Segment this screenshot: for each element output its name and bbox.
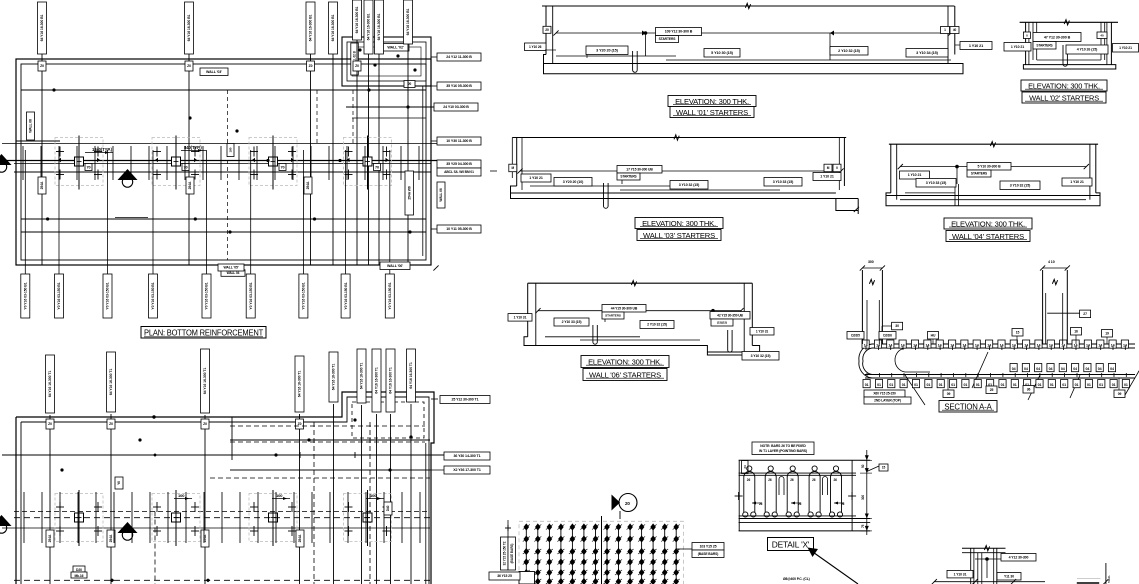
detailX left edge: [738, 460, 740, 531]
svg-text:01: 01: [1038, 383, 1042, 387]
svg-text:01: 01: [865, 383, 869, 387]
wall 02 sub-area rectangle top-right of plan: [342, 37, 431, 86]
svg-text:15: 15: [1016, 330, 1020, 334]
right label 2line a: [437, 160, 481, 168]
sub-rect inner rotated label: [351, 43, 359, 75]
svg-text:STARTERS: STARTERS: [1036, 43, 1052, 47]
wall02 bar left a: [1032, 22, 1034, 60]
wall04 label 2: [916, 179, 956, 188]
bottom plan lower line: [2, 527, 430, 529]
arrow to detail X: [808, 548, 859, 584]
svg-text:04: 04: [1110, 367, 1114, 371]
bottom plan main line: [2, 454, 444, 456]
svg-text:1 Y10 21: 1 Y10 21: [820, 175, 834, 179]
wall01 base outline: [544, 55, 964, 74]
wall01 label 109 Y12: [656, 28, 702, 36]
svg-text:Y0 Y16 03-150 B1: Y0 Y16 03-150 B1: [151, 282, 155, 309]
bottom band label 50: [46, 530, 54, 547]
bottom plan dashed line: [14, 511, 430, 513]
svg-text:04: 04: [1024, 367, 1028, 371]
column marker (bottom plan): [249, 490, 297, 546]
tick marks along band: [866, 346, 1126, 377]
rebar label below plan x=107.5: [103, 274, 112, 318]
vertical dashed line 2: [352, 90, 354, 143]
svg-text:25 Y12 30-300 T1: 25 Y12 30-300 T1: [451, 398, 478, 402]
wall01 right outer: [954, 6, 956, 55]
svg-text:Z0: Z0: [187, 64, 191, 68]
svg-text:14: 14: [1098, 343, 1102, 347]
svg-text:01: 01: [1075, 383, 1079, 387]
svg-text:STARTERS: STARTERS: [659, 37, 677, 41]
wall03 label 7: [813, 173, 841, 181]
svg-text:30: 30: [895, 324, 899, 328]
detail X dimension line: [866, 450, 868, 535]
rebar label above bottom plan x=50: [46, 355, 55, 413]
wall06 label 1: [508, 314, 532, 322]
svg-text:42 Y15 30-350 UB: 42 Y15 30-350 UB: [717, 313, 743, 317]
dim label 1340(TYP.) col1: [85, 147, 113, 154]
wall01 label starters: [656, 36, 679, 43]
plan line to label 03: [346, 106, 478, 108]
svg-text:Mk.16: Mk.16: [75, 574, 84, 578]
svg-text:3 Y10 32 (15): 3 Y10 32 (15): [679, 183, 700, 187]
wall02 title: [1021, 80, 1107, 103]
bottom plan right label 2: [444, 452, 490, 460]
bottom plan dashed through columns: [14, 517, 430, 519]
wall06 label 9: [742, 352, 779, 361]
svg-text:01: 01: [1001, 383, 1005, 387]
svg-text:26: 26: [798, 502, 802, 506]
svg-text:04: 04: [1036, 367, 1040, 371]
svg-text:Z0: Z0: [48, 422, 52, 426]
wall02 label left: [1004, 43, 1031, 52]
svg-text:Z0: Z0: [355, 64, 359, 68]
svg-text:2 Y10 32 (15): 2 Y10 32 (15): [647, 323, 667, 327]
svg-text:5 Y10 30-300 B: 5 Y10 30-300 B: [977, 164, 1001, 168]
svg-text:103 Y15 25: 103 Y15 25: [700, 544, 717, 548]
svg-text:20: 20: [545, 28, 549, 32]
bottom plan grid x=361.5: [361, 405, 363, 584]
wall01 small box right a: [941, 27, 950, 34]
bottom plan grid x=376.5: [376, 414, 378, 584]
grid box on top border: [38, 61, 46, 71]
svg-text:WALL '03': WALL '03': [206, 70, 222, 74]
bottom subrect dashed 2: [230, 441, 425, 443]
detail X slab lines: [739, 459, 871, 461]
svg-text:X2 Y36 17-300 T1: X2 Y36 17-300 T1: [453, 468, 481, 472]
wall06 label 6: [710, 312, 750, 320]
svg-text:35 Y25 04-300 B: 35 Y25 04-300 B: [446, 162, 472, 166]
svg-text:HU: HU: [931, 333, 936, 337]
column marker (bottom plan): [344, 490, 392, 546]
svg-text:1 Y10 31: 1 Y10 31: [514, 316, 527, 320]
svg-text:1 Y10 31: 1 Y10 31: [954, 572, 967, 576]
bottom right mini elevation: [962, 547, 1006, 549]
plan second centre line: [14, 163, 431, 165]
grid line x=408: [407, 44, 409, 265]
grid box on top border: [353, 61, 361, 71]
wall04 right inner: [1089, 144, 1091, 200]
grid box on top border: [185, 61, 193, 71]
plan dim line upper: [2, 143, 478, 145]
wall02 right outer: [1110, 22, 1112, 64]
secAA label 09b: [1114, 390, 1125, 398]
secAA label D2/D6: [879, 332, 896, 340]
svg-text:D2/D6: D2/D6: [883, 333, 892, 337]
bottom band label 300: [296, 530, 304, 547]
svg-text:27: 27: [1083, 312, 1087, 316]
svg-text:01: 01: [1062, 383, 1066, 387]
column at x=367.5 top plan: [344, 136, 392, 190]
wall04 title: [944, 218, 1032, 242]
section A-A inner bend: [895, 348, 930, 372]
band label 308: [304, 177, 312, 194]
dim label 100: [174, 493, 192, 500]
svg-text:Ø8@400 P.C. (CL): Ø8@400 P.C. (CL): [783, 577, 810, 581]
svg-text:Y0 Y16 03-150 B1: Y0 Y16 03-150 B1: [24, 282, 28, 309]
svg-text:64 Y16 16-300 T1: 64 Y16 16-300 T1: [389, 367, 393, 394]
wall03 title: [635, 218, 723, 241]
svg-text:36: 36: [1027, 387, 1031, 391]
svg-text:2 Y10 32 (15): 2 Y10 32 (15): [838, 49, 860, 53]
svg-text:D20: D20: [76, 568, 82, 572]
bottom plan vertical dashed 2: [369, 422, 371, 584]
svg-text:(15)(15): (15)(15): [717, 321, 727, 325]
svg-text:10 Y11 05-300 B: 10 Y11 05-300 B: [446, 227, 472, 231]
base bars grid columns: [523, 523, 680, 584]
svg-text:254A: 254A: [109, 534, 113, 542]
section A-A top label squares: [862, 340, 1129, 348]
wall06 left inner: [535, 283, 537, 345]
svg-text:WALL 08: WALL 08: [29, 119, 33, 133]
secAA label 09a: [943, 390, 954, 398]
dim label 100: [272, 493, 290, 500]
svg-text:64 Y16 16-300 B1: 64 Y16 16-300 B1: [309, 14, 313, 41]
wall03 label 4: [617, 173, 640, 180]
bottom plan grid x=390.5: [390, 414, 392, 584]
grid detail marker D: [612, 494, 638, 520]
wall03 small box left: [509, 164, 517, 172]
plan main centre line: [2, 160, 478, 162]
wall03 top line: [512, 137, 846, 139]
left wall label: [27, 112, 35, 140]
bottom plan right label 1: [440, 396, 490, 404]
wall04 hook b: [958, 184, 960, 206]
right label 24 Y10 03-300 B: [434, 103, 478, 111]
wall04 dim line: [900, 166, 1086, 168]
svg-text:64 Y16 16-300 B1: 64 Y16 16-300 B1: [377, 13, 381, 40]
svg-text:A: A: [0, 520, 3, 525]
svg-text:M: M: [512, 166, 515, 170]
svg-text:WALL '06': WALL '06': [387, 264, 403, 268]
wall01 label 5 Y10 30: [704, 49, 740, 58]
svg-text:70: 70: [183, 166, 187, 170]
svg-text:01: 01: [1087, 383, 1091, 387]
svg-text:01: 01: [951, 383, 955, 387]
wall03 label 6: [764, 178, 802, 187]
wall04 bar line: [900, 199, 1086, 201]
detail X title: [768, 538, 814, 551]
wall03 dim line: [520, 170, 841, 172]
wall01 dim line: [556, 32, 951, 34]
dim label on dashed line: [227, 144, 234, 157]
wall02 label main: [1033, 33, 1081, 42]
svg-text:3 Y10 32 (15): 3 Y10 32 (15): [751, 354, 771, 358]
svg-text:64 Y16 16-300 T1: 64 Y16 16-300 T1: [409, 362, 413, 389]
wall02 label starters: [1033, 42, 1056, 50]
rebar line x=153: [152, 150, 154, 274]
secAA label HU: [928, 332, 939, 340]
wall02 base: [1023, 65, 1115, 69]
wall06 top line: [528, 282, 753, 284]
svg-text:Z0: Z0: [109, 422, 113, 426]
grid line x=189: [188, 54, 190, 265]
wall03 right inner: [838, 138, 840, 191]
svg-text:STARTERS: STARTERS: [971, 172, 987, 176]
svg-text:254A: 254A: [48, 534, 52, 542]
section marker A left edge bottom plan: [0, 515, 12, 533]
svg-text:WALL 06: WALL 06: [439, 188, 443, 201]
svg-text:Y0 Y16 03-150 B1: Y0 Y16 03-150 B1: [302, 282, 306, 309]
detailX left inner label: [742, 461, 749, 474]
mini elev mid line: [975, 558, 1002, 560]
svg-text:64 Y16 16-300 B1: 64 Y16 16-300 B1: [355, 6, 359, 33]
svg-text:3 Y10 34 (15): 3 Y10 34 (15): [916, 51, 938, 55]
svg-text:Z0: Z0: [40, 64, 44, 68]
bottom plan vertical dashed 3: [313, 422, 315, 584]
svg-text:254A: 254A: [298, 534, 302, 542]
wall03 left outer: [516, 138, 518, 187]
section A-A bottom label squares: [863, 380, 1130, 388]
svg-text:01: 01: [1013, 383, 1017, 387]
secAA label 30: [892, 322, 903, 330]
svg-text:Y0 Y16 03-150 B1: Y0 Y16 03-150 B1: [344, 282, 348, 309]
svg-text:01: 01: [939, 383, 943, 387]
wall03 small box right b: [833, 164, 841, 172]
detailX right edge: [851, 460, 853, 531]
secAA label 36: [1023, 386, 1034, 394]
far right bottom bits: [1077, 582, 1099, 584]
right label 24 Y12 11-300 B: [437, 53, 481, 61]
svg-text:01: 01: [926, 383, 930, 387]
wall01 right inner: [947, 6, 949, 64]
small label TY0: [115, 477, 123, 489]
column at x=176 top plan: [152, 136, 200, 190]
rebar label above plan x=408: [404, 0, 413, 44]
plan lower band line: [14, 171, 431, 173]
wall02 base top bar: [1037, 59, 1101, 61]
bottom plan grid x=205: [204, 415, 206, 584]
sub-rect small box: [404, 81, 415, 88]
grid centre line: [601, 516, 603, 584]
svg-text:3 Y10 32 (15): 3 Y10 32 (15): [1010, 184, 1031, 188]
svg-text:100: 100: [178, 493, 185, 498]
svg-text:Y0 Y16 03-150 B1: Y0 Y16 03-150 B1: [388, 282, 392, 309]
rebar label above plan x=42: [38, 2, 47, 54]
wall03 label 3: [617, 166, 662, 174]
svg-text:IN T1 LAYER (POINTING BARS): IN T1 LAYER (POINTING BARS): [759, 449, 807, 453]
svg-text:04: 04: [1085, 367, 1089, 371]
svg-text:D2/D5: D2/D5: [851, 333, 860, 337]
wall02 area rebar (bottom plan): [210, 477, 430, 479]
svg-text:64 Y16 16-300 B1: 64 Y16 16-300 B1: [40, 14, 44, 41]
svg-text:Y0 Y16 03-150 B1: Y0 Y16 03-150 B1: [106, 282, 110, 309]
mini elev hook: [986, 559, 988, 578]
section marker A left edge top plan: [0, 154, 12, 172]
svg-text:2 Y10 33 (15): 2 Y10 33 (15): [562, 320, 582, 324]
wall03 base: [511, 186, 859, 214]
grid left label b: [508, 537, 516, 570]
wall03 small box right a: [824, 164, 832, 172]
wall04 label 1: [900, 171, 930, 179]
svg-text:ABCL S/L W/I BM 01: ABCL S/L W/I BM 01: [444, 170, 474, 174]
svg-text:01: 01: [1050, 383, 1054, 387]
svg-text:300: 300: [868, 260, 874, 264]
svg-text:Y0 Y16 03-150 B1: Y0 Y16 03-150 B1: [57, 282, 61, 309]
rebar line x=389.8: [389, 150, 391, 274]
svg-text:1 Y10 21: 1 Y10 21: [1011, 45, 1024, 49]
section A-A wall 2: [1042, 270, 1044, 344]
wall03 step line: [530, 185, 680, 187]
svg-text:10 Y30 11-300 B: 10 Y30 11-300 B: [446, 139, 472, 143]
svg-text:3 Y10 33 (15): 3 Y10 33 (15): [773, 180, 794, 184]
wall04 hook a: [954, 184, 956, 206]
right label 35 Y16 05-300 B: [437, 82, 481, 90]
wall01 label 3 Y10 34: [906, 49, 948, 58]
section A-A wall 1: [861, 270, 863, 344]
svg-text:40: 40: [1100, 33, 1104, 37]
svg-text:01: 01: [889, 383, 893, 387]
bottom left small label: [489, 572, 520, 580]
small label pair bottom plan col1: [71, 566, 87, 578]
secAA label 25: [986, 386, 997, 394]
rebar line x=250.7: [250, 150, 252, 274]
svg-text:STARTERS: STARTERS: [620, 175, 636, 179]
rebar label below plan x=153: [149, 274, 158, 318]
svg-text:15: 15: [882, 466, 886, 470]
section A-A leader diagonals: [905, 375, 925, 405]
svg-text:16: 16: [1074, 329, 1078, 333]
svg-text:01: 01: [976, 383, 980, 387]
detail X splice bars: [779, 477, 784, 496]
bottom plan line dup: [230, 469, 430, 471]
rebar label above bottom plan x=376.5: [372, 349, 381, 412]
svg-text:109 Y12 30-300 B: 109 Y12 30-300 B: [665, 30, 693, 34]
vertical dashed line 1: [227, 90, 229, 260]
svg-text:4 10: 4 10: [1048, 260, 1055, 264]
svg-text:Y11 30: Y11 30: [1004, 574, 1014, 578]
grid box on bottom plan top border: [296, 419, 304, 429]
wall06 title: [581, 356, 669, 381]
wall06 U-bars: [593, 325, 597, 344]
wall02 small box l: [1023, 32, 1030, 39]
wall06 right inner: [743, 283, 745, 352]
wall02 sub-rect dashed inner (bottom plan): [352, 402, 424, 438]
wall01 label 3 Y20 20: [586, 46, 628, 55]
secAA bottom label a: [864, 390, 905, 397]
rebar line x=25.3: [24, 150, 26, 274]
plan: top reinforcement (cut off at bottom) outer border: [16, 392, 434, 584]
wall01 title: [668, 96, 756, 118]
svg-text:WALL '02': WALL '02': [387, 46, 404, 50]
bottom plan dashed line 2: [14, 579, 430, 581]
rebar label above plan x=333: [329, 2, 338, 54]
svg-text:09: 09: [1118, 392, 1122, 396]
wall04 leader: [956, 167, 958, 184]
grid box on bottom plan top border: [201, 419, 209, 429]
wall04 label 5: [1000, 181, 1040, 190]
rebar line x=206.5: [206, 150, 208, 274]
rebar label below plan x=250.7: [246, 274, 255, 318]
grid line x=42: [41, 54, 43, 265]
wall02 bar right b: [1104, 22, 1106, 60]
svg-text:254A: 254A: [306, 181, 310, 189]
grid line x=357: [356, 40, 358, 265]
svg-text:840(TYP.): 840(TYP.): [184, 145, 202, 150]
plan subarea line 2: [352, 117, 426, 119]
svg-text:254A: 254A: [40, 181, 44, 189]
svg-text:100: 100: [370, 493, 377, 498]
svg-text:26: 26: [768, 478, 772, 482]
grid box on top border: [307, 61, 315, 71]
svg-text:3 Y10 33 (15): 3 Y10 33 (15): [926, 181, 947, 185]
svg-text:26: 26: [834, 478, 838, 482]
svg-text:70: 70: [86, 166, 90, 170]
svg-text:26: 26: [747, 478, 751, 482]
wall01 small box left: [543, 26, 551, 33]
grid box on bottom plan top border: [46, 419, 54, 429]
rebar line x=107.5: [107, 150, 109, 274]
wall06 right outer: [751, 283, 753, 345]
svg-text:64 Y16 16-300 T1: 64 Y16 16-300 T1: [375, 367, 379, 394]
left stub line: [16, 140, 60, 142]
svg-text:70: 70: [375, 166, 379, 170]
svg-text:01: 01: [963, 383, 967, 387]
section A-A band: [865, 344, 1135, 378]
wall04 step left: [905, 192, 955, 194]
svg-text:44 Y15 30-300 UB: 44 Y15 30-300 UB: [611, 306, 638, 310]
svg-text:100: 100: [276, 493, 283, 498]
bottom plan grid x=333.5: [333, 404, 335, 584]
svg-text:64 Y16 16-300 T1: 64 Y16 16-300 T1: [298, 371, 302, 398]
mini elev label 2: [947, 570, 973, 578]
bottom subrect dashed 1: [230, 425, 425, 427]
secAA bottom label b: [864, 397, 911, 404]
bottom band label 205: [201, 530, 209, 547]
wall02 label bars: [1066, 45, 1108, 54]
grid line x=379: [378, 54, 380, 265]
wall06 left outer: [527, 283, 529, 337]
bottom plan right label 3: [444, 466, 490, 474]
svg-text:04: 04: [1061, 367, 1065, 371]
svg-text:64 Y16 16-300 T1: 64 Y16 16-300 T1: [109, 369, 113, 396]
svg-text:01: 01: [914, 383, 918, 387]
svg-text:5 Y10 30 (15): 5 Y10 30 (15): [711, 51, 733, 55]
svg-text:1 Y10 21: 1 Y10 21: [908, 173, 922, 177]
wall02 left outer: [1025, 22, 1027, 64]
svg-text:04: 04: [1012, 367, 1016, 371]
dim label 100: [366, 493, 384, 500]
section A-A mid label squares: [1010, 364, 1116, 372]
wall02 bar left b: [1036, 22, 1038, 60]
svg-text:24 Y12 11-300 B: 24 Y12 11-300 B: [446, 55, 472, 59]
svg-text:01: 01: [1099, 383, 1103, 387]
grid line x=333: [332, 54, 334, 265]
column at x=273 top plan: [249, 136, 297, 190]
wall01 label 1 Y10 26: [525, 43, 547, 51]
wall03 leader: [621, 171, 623, 184]
small wall04 label below plan: [221, 270, 245, 277]
